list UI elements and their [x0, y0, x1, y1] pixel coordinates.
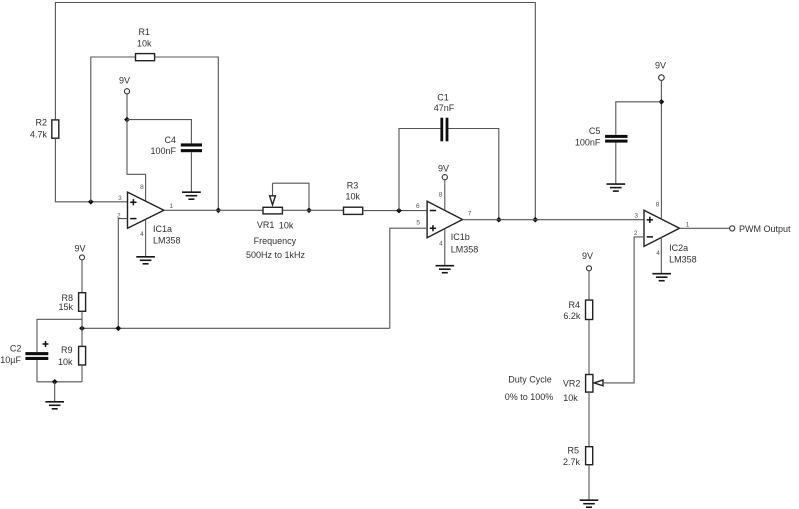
svg-text:VR1: VR1	[257, 220, 275, 230]
wire: 9V terminal to R8	[81, 260, 83, 293]
svg-text:8: 8	[439, 191, 443, 198]
svg-text:100nF: 100nF	[575, 138, 601, 148]
wire: 9V terminal to IC2a pin 8	[660, 80, 662, 219]
wire: C5 to ground	[615, 143, 617, 184]
wire: ground rail stub	[54, 382, 56, 402]
capacitor C5	[605, 135, 627, 143]
svg-text:8: 8	[140, 184, 144, 191]
wire: IC2a pin 2 to VR2 wiper	[604, 237, 644, 383]
svg-text:PWM Output: PWM Output	[739, 224, 791, 234]
op-amp IC1b	[427, 201, 462, 237]
wire: 9V to IC1b pin 8	[444, 180, 446, 210]
wire: divider node to IC1b pin 5	[390, 228, 427, 328]
power terminal 9V (R4 branch)	[587, 266, 592, 271]
svg-text:LM358: LM358	[451, 244, 479, 254]
svg-text:8: 8	[656, 201, 660, 208]
wire: IC1a output to VR1	[164, 209, 263, 211]
ground (R5)	[580, 500, 599, 507]
junction: divider node at R8/R9	[79, 326, 85, 332]
wire: R2 bottom to IC1a pin 3	[55, 138, 127, 202]
svg-text:2.7k: 2.7k	[563, 457, 581, 467]
svg-text:5: 5	[416, 219, 420, 226]
svg-text:Duty Cycle: Duty Cycle	[508, 375, 552, 385]
potentiometer VR1	[263, 183, 282, 214]
wire: C1 left branch	[399, 129, 441, 211]
wire: VR1 wiper loop to track end	[273, 183, 310, 210]
wire: IC1a pin 4 to ground	[145, 219, 147, 256]
svg-text:0% to 100%: 0% to 100%	[505, 392, 554, 402]
wire: top feedback loop from R2 top to IC1b output	[55, 3, 535, 220]
svg-text:7: 7	[468, 211, 472, 218]
wire: R3 to IC1b pin 6	[363, 210, 427, 212]
svg-text:2: 2	[634, 230, 638, 237]
wire: 9V terminal to R4	[588, 271, 590, 300]
svg-text:IC2a: IC2a	[669, 243, 688, 253]
wire: 9V rail to C5	[616, 102, 662, 135]
wire: IC1b pin 4 to ground	[444, 229, 446, 266]
svg-text:10k: 10k	[137, 39, 152, 49]
ground (C5)	[607, 184, 626, 191]
junction: R1 joins IC1a output net	[215, 208, 221, 214]
svg-text:R9: R9	[61, 345, 73, 355]
power terminal 9V (IC1b supply)	[442, 175, 447, 180]
resistor R3	[344, 207, 363, 214]
junction: 9V rail at C4 tap	[124, 117, 130, 123]
ground (C2/R9 rail)	[45, 402, 64, 409]
capacitor C2	[25, 352, 48, 360]
resistor R2	[52, 120, 59, 138]
svg-text:500Hz to 1kHz: 500Hz to 1kHz	[246, 250, 306, 260]
wire: C2 bottom to ground rail	[37, 360, 82, 382]
svg-text:10µF: 10µF	[0, 355, 21, 365]
svg-text:9V: 9V	[582, 251, 593, 261]
output terminal (PWM Output)	[730, 226, 735, 231]
svg-text:9V: 9V	[655, 60, 666, 70]
ground (IC1a pin 4)	[136, 257, 155, 264]
wire: R9 bottom to ground rail	[81, 365, 83, 382]
junction: VR1 wiper joins track	[306, 208, 312, 214]
capacitor C1	[440, 118, 448, 142]
junction: C1 joins IC1b output net	[496, 217, 502, 223]
resistor R4	[586, 300, 593, 319]
junction: R1 feedback joins IC1a pin 3 net	[88, 199, 94, 205]
resistor R8	[79, 293, 86, 312]
wire: C2 top branch to divider	[37, 319, 82, 352]
svg-text:3: 3	[634, 213, 638, 220]
wire: C4 bottom plate to ground	[190, 152, 192, 192]
resistor R9	[79, 346, 86, 365]
svg-text:9V: 9V	[119, 76, 130, 86]
resistor R5	[586, 447, 593, 465]
svg-text:R3: R3	[347, 181, 359, 191]
junction: IC1a pin 2 joins divider net	[115, 326, 121, 332]
svg-text:R4: R4	[568, 300, 580, 310]
svg-text:C4: C4	[164, 135, 176, 145]
svg-text:1: 1	[686, 222, 690, 229]
wire: R1 right side down to IC1a output	[155, 57, 219, 210]
svg-text:4: 4	[140, 231, 144, 238]
svg-text:IC1a: IC1a	[153, 224, 172, 234]
svg-text:VR2: VR2	[563, 379, 581, 389]
svg-text:C5: C5	[589, 126, 601, 136]
svg-text:4: 4	[656, 250, 660, 257]
svg-text:R2: R2	[35, 118, 47, 128]
junction: ground rail below C2/R9	[52, 379, 58, 385]
wire: IC2a pin 4 to ground	[660, 237, 662, 273]
svg-text:R5: R5	[567, 445, 579, 455]
svg-text:4.7k: 4.7k	[30, 129, 48, 139]
svg-text:6.2k: 6.2k	[563, 311, 581, 321]
power terminal 9V (R8 divider)	[80, 255, 85, 260]
svg-text:R1: R1	[138, 27, 150, 37]
wire: VR1 to R3	[282, 209, 343, 211]
power terminal 9V (IC1a supply)	[124, 89, 129, 94]
svg-text:LM358: LM358	[669, 254, 697, 264]
svg-text:9V: 9V	[438, 163, 449, 173]
junction: feedback loop joins IC1b output net	[532, 217, 538, 223]
power terminal 9V (IC2a supply)	[659, 75, 665, 81]
svg-text:LM358: LM358	[153, 235, 181, 245]
svg-text:15k: 15k	[58, 302, 73, 312]
svg-text:C2: C2	[10, 344, 22, 354]
wire: 9V rail to IC1a pin 8	[127, 120, 146, 202]
capacitor C4	[181, 143, 202, 152]
op-amp IC2a	[644, 210, 680, 246]
ground (IC2a pin 4)	[652, 274, 671, 281]
wire: IC2a output to PWM terminal	[680, 227, 730, 229]
svg-text:100nF: 100nF	[150, 146, 176, 156]
junction: C1 joins IC1b pin 6 net	[396, 208, 402, 214]
svg-text:10k: 10k	[279, 221, 294, 231]
capacitor C2 polarity mark	[43, 341, 49, 347]
svg-text:Frequency: Frequency	[254, 236, 297, 246]
svg-text:6: 6	[416, 203, 420, 210]
svg-text:10k: 10k	[563, 393, 578, 403]
svg-text:10k: 10k	[58, 357, 73, 367]
potentiometer VR2	[586, 375, 603, 393]
svg-text:3: 3	[118, 195, 122, 202]
wire: C1 right branch to IC1b output	[448, 129, 498, 220]
wire: 9V terminal down to rail junction	[126, 94, 128, 120]
wire: VR2 to R5	[588, 392, 590, 447]
svg-text:1: 1	[169, 203, 173, 210]
svg-text:IC1b: IC1b	[451, 232, 470, 242]
wire: 9V rail to C4 top plate	[127, 120, 191, 144]
wire: R8 bottom through divider node to R9	[81, 311, 83, 346]
svg-text:9V: 9V	[74, 244, 85, 254]
wire: IC1a pin 2 to divider node	[118, 219, 127, 329]
resistor R1	[136, 54, 155, 61]
svg-text:C1: C1	[437, 92, 449, 102]
svg-text:4: 4	[439, 241, 443, 248]
svg-text:47nF: 47nF	[434, 103, 455, 113]
ground (C4)	[182, 192, 201, 199]
junction: 9V rail at C5 tap	[659, 99, 665, 105]
ground (IC1b pin 4)	[436, 266, 455, 273]
wire: R5 to ground	[588, 465, 590, 500]
op-amp IC1a	[128, 192, 164, 228]
wire: IC1b output to IC2a pin 3	[463, 219, 645, 221]
wire: R8/R9 divider node to IC1b pin 5 branch	[82, 327, 390, 329]
wire: R1 left branch down to pin 3 node	[91, 57, 136, 202]
wire: R4 to VR2	[588, 320, 590, 375]
svg-text:10k: 10k	[345, 192, 360, 202]
